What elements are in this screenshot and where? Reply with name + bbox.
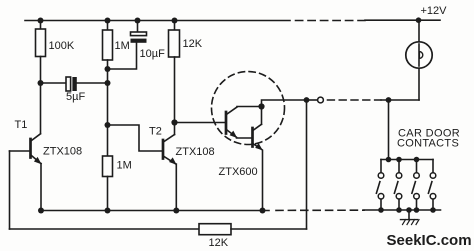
resistor R2 1M: [103, 30, 113, 60]
wire node A down to T1 collector: [40, 83, 42, 134]
wire lamp top lead: [418, 20, 420, 42]
wire emitter bus dashed: [276, 209, 364, 211]
svg-text:T1: T1: [15, 119, 28, 131]
wire contacts top bus: [381, 159, 433, 161]
wire 1M lower bottom stub: [107, 177, 109, 211]
node dot rail 10uF: [135, 18, 141, 24]
wire 100K top stub: [40, 21, 42, 30]
wire emitter bus solid: [41, 210, 269, 212]
svg-text:1M: 1M: [117, 160, 132, 172]
car door switch S3: [412, 160, 419, 211]
lamp inner bump: [419, 52, 422, 59]
node dot bus 1M lower: [105, 208, 111, 214]
node dot output/riser: [304, 97, 310, 103]
node dot contacts top S2: [396, 157, 402, 163]
wire bottom feedback left: [10, 228, 200, 230]
wire 10uF top stub: [137, 21, 139, 33]
wire top supply rail solid right: [365, 19, 440, 21]
wire Q4 emitter down: [262, 150, 264, 210]
dashed circle around ZTX600: [212, 72, 285, 145]
svg-text:1M: 1M: [115, 40, 130, 52]
car door switch S2: [394, 160, 401, 211]
wire top supply rail solid left: [25, 20, 290, 22]
car door switch S1: [376, 160, 383, 211]
node dot contacts bottom S1: [378, 207, 384, 213]
node dot output/lamp/contacts: [386, 97, 392, 103]
wire lamp bottom lead: [418, 68, 420, 100]
svg-text:SeekIC.com: SeekIC.com: [387, 232, 472, 249]
node dot contacts bottom ground: [406, 207, 412, 213]
wire lamp vertical through: [418, 44, 420, 66]
wire contacts bottom bus: [364, 209, 441, 211]
node dot rail 100K: [38, 18, 44, 24]
node dot bus T1 emitter: [38, 208, 44, 214]
svg-text:ZTX600: ZTX600: [219, 166, 258, 178]
node dot bus Q4 emitter: [260, 208, 266, 214]
svg-text:CONTACTS: CONTACTS: [397, 138, 459, 150]
capacitor C1 5uF right plate: [72, 77, 76, 91]
wire T1 emitter down: [40, 164, 42, 211]
wire node E to darlington base: [175, 122, 227, 124]
terminal open circle: [318, 97, 324, 103]
wire output dashed: [328, 99, 382, 101]
transistor Q2 T2 ZTX108: [163, 123, 177, 165]
wire output to terminal: [307, 99, 318, 101]
wire Q3 emitter to Q4 base: [237, 137, 253, 139]
resistor R3 1M lower: [103, 156, 113, 177]
wire output node down to car door contacts: [388, 100, 390, 160]
transistor Q4 darlington second ZTX600: [253, 107, 263, 151]
node dot rail +12V: [416, 17, 422, 23]
svg-text:ZTX108: ZTX108: [176, 146, 215, 158]
wire node C down to node D: [107, 83, 109, 125]
wire 1M bottom stub to node B: [107, 60, 109, 69]
wire bottom feedback right: [231, 228, 307, 230]
wire 1M top stub: [107, 21, 109, 31]
wire 12K top stub: [174, 21, 176, 31]
svg-text:12K: 12K: [209, 237, 229, 249]
wire 5uF left lead: [41, 82, 67, 84]
node dot B 1M/10uF: [105, 66, 111, 72]
wire 10uF bottom stub: [108, 43, 137, 69]
node dot C 1M/5uF: [105, 80, 111, 86]
node dot contacts bottom S3: [414, 207, 420, 213]
svg-text:100K: 100K: [49, 40, 75, 52]
node dot F darlington collector: [258, 103, 264, 109]
node dot contacts bottom S2: [396, 207, 402, 213]
wire Q3 collector to node F: [237, 106, 262, 108]
svg-text:5µF: 5µF: [66, 91, 85, 103]
node dot A 100K/5uF/T1: [38, 80, 44, 86]
node dot D 1M/T2 base: [105, 122, 111, 128]
svg-text:ZTX108: ZTX108: [43, 146, 82, 158]
transistor Q1 T1 ZTX108: [10, 134, 42, 165]
wire 5uF right lead: [77, 82, 108, 84]
capacitor C2 10uF bottom plate: [131, 39, 147, 43]
node dot contacts bottom S4: [430, 207, 436, 213]
node dot rail 1M: [105, 18, 111, 24]
capacitor C2 10uF top plate: [131, 32, 147, 36]
wire node D to T2 base: [108, 125, 164, 151]
wire T1 base left and down: [9, 151, 11, 229]
capacitor C1 5uF left plate: [66, 77, 71, 91]
wire T2 emitter down: [175, 164, 177, 210]
svg-text:T2: T2: [149, 126, 162, 138]
resistor R5 12K horizontal: [199, 224, 231, 235]
resistor R4 12K: [169, 30, 180, 57]
node dot bus T2 emitter: [173, 208, 179, 214]
svg-text:12K: 12K: [183, 38, 203, 50]
svg-text:10µF: 10µF: [140, 48, 166, 60]
wire feedback riser: [306, 100, 308, 229]
node dot contacts top S3: [414, 157, 420, 163]
node dot contacts top feed: [386, 157, 392, 163]
svg-text:+12V: +12V: [421, 5, 448, 17]
node dot E 12K/T2 collector: [171, 119, 177, 125]
wire top supply rail dashed middle: [296, 20, 366, 22]
node dot rail 12K: [172, 18, 178, 24]
wire 100K bottom stub: [40, 57, 42, 84]
wire node F step up to output line: [262, 100, 307, 107]
lamp L1: [406, 42, 432, 68]
wire 12K down to node E: [174, 57, 176, 123]
wire node D down to 1M lower: [107, 125, 109, 156]
wire node B to node C: [107, 69, 109, 83]
ground: [401, 210, 420, 225]
resistor R1 100K: [36, 29, 46, 57]
transistor Q3 darlington first ZTX600: [226, 107, 237, 138]
wire output solid right to lamp corner: [381, 99, 419, 101]
car door switch S4: [428, 160, 435, 211]
